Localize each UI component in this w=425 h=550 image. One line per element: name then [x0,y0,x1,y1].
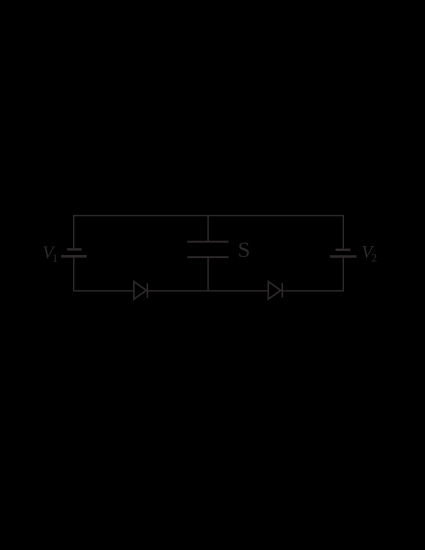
wire bottom rail middle segment [147,290,268,292]
wire left branch upper [73,215,75,248]
diode D1 [134,282,148,300]
label S [238,237,251,262]
svg-text:2: 2 [371,252,377,264]
label V1 [43,242,59,265]
svg-text:1: 1 [52,253,58,265]
wire middle branch lower [207,257,209,291]
wire bottom rail right segment [282,290,343,292]
wire right branch lower [342,258,344,292]
svg-text:S: S [238,237,251,262]
wire bottom rail left segment [74,290,134,292]
wire right branch upper [342,215,344,249]
diode D2 [268,282,282,300]
capacitor S [187,242,228,258]
battery V2 [330,250,357,257]
wire left branch lower [73,258,75,292]
battery V1 [61,249,87,256]
label V2 [362,242,378,264]
wire middle branch upper [207,216,209,242]
wire top rail [74,215,344,217]
